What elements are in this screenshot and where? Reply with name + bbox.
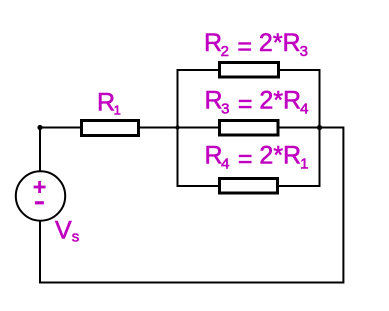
svg-text:R4 = 2*R1: R4 = 2*R1 [205, 141, 309, 173]
svg-text:R2 = 2*R3: R2 = 2*R3 [204, 29, 308, 61]
svg-text:Vs: Vs [55, 217, 79, 246]
svg-text:R1: R1 [97, 89, 121, 118]
svg-text:R3 = 2*R4: R3 = 2*R4 [205, 86, 309, 118]
